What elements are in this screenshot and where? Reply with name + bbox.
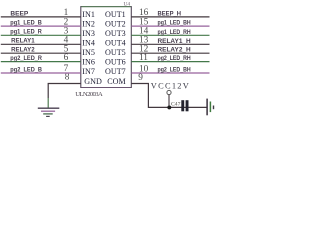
wire pg1_LED_B (pin 2) — [1, 25, 81, 27]
wire pg2_LED_B (pin 7) — [1, 72, 81, 74]
junction node — [167, 105, 171, 109]
wire pg2_LED_BH (pin 10) — [131, 72, 209, 74]
capacitor C47 plates — [181, 100, 188, 111]
svg-text:RELAY2: RELAY2 — [11, 47, 35, 54]
wire pg1_LED_R (pin 3) — [1, 34, 81, 36]
wire RELAY1 (pin 4) — [1, 43, 81, 45]
svg-text:OUT3: OUT3 — [105, 29, 126, 38]
svg-text:pg1_LED_R: pg1_LED_R — [10, 29, 42, 36]
wire BEEP (pin 1) — [1, 16, 81, 18]
svg-text:OUT1: OUT1 — [105, 10, 126, 19]
svg-text:GND: GND — [84, 77, 102, 86]
svg-text:C47: C47 — [171, 101, 181, 107]
svg-text:RELAY1_H: RELAY1_H — [158, 39, 191, 45]
wire pg2_LED_R (pin 6) — [1, 61, 81, 63]
svg-text:IN2: IN2 — [82, 20, 95, 29]
pin names right column — [105, 10, 126, 86]
ground symbol (earth) — [38, 108, 60, 116]
svg-text:BEEP_H: BEEP_H — [158, 11, 182, 17]
wire BEEP_H (pin 16) — [131, 16, 209, 18]
svg-text:IN6: IN6 — [82, 57, 95, 66]
IC U4 ULN2003A body — [81, 6, 132, 88]
wire pg1_LED_BH (pin 15) — [131, 25, 209, 27]
wire RELAY2 (pin 5) — [1, 52, 81, 54]
svg-text:RELAY2_H: RELAY2_H — [158, 48, 191, 54]
svg-text:IN1: IN1 — [82, 10, 95, 19]
wire COM pin 9 down to VCC rail — [131, 84, 207, 108]
svg-text:pg2_LED_BH: pg2_LED_BH — [158, 68, 191, 74]
svg-text:IN5: IN5 — [82, 48, 95, 57]
wire RELAY1_H (pin 13) — [131, 43, 209, 45]
svg-text:pg2_LED_RH: pg2_LED_RH — [158, 56, 191, 62]
left pin numbers 1-8 — [64, 8, 70, 82]
svg-text:OUT2: OUT2 — [105, 20, 126, 29]
svg-text:pg1_LED_B: pg1_LED_B — [10, 20, 42, 27]
svg-text:OUT7: OUT7 — [105, 67, 126, 76]
svg-text:IN7: IN7 — [82, 67, 95, 76]
svg-text:pg2_LED_R: pg2_LED_R — [10, 55, 42, 62]
wire RELAY2_H (pin 12) — [131, 52, 209, 54]
svg-text:OUT5: OUT5 — [105, 48, 126, 57]
svg-text:pg1_LED_BH: pg1_LED_BH — [158, 21, 191, 27]
svg-text:COM: COM — [107, 77, 125, 86]
right pin numbers 16-9 — [138, 8, 148, 83]
wire pg1_LED_RH (pin 14) — [131, 34, 209, 36]
wire GND pin 8 to ground — [48, 84, 81, 99]
svg-text:pg2_LED_B: pg2_LED_B — [10, 66, 42, 73]
power ground (bar style) — [207, 99, 213, 116]
svg-text:ULN2003A: ULN2003A — [75, 91, 103, 98]
svg-text:8: 8 — [65, 72, 70, 82]
svg-text:pg1_LED_RH: pg1_LED_RH — [158, 30, 191, 36]
svg-text:9: 9 — [138, 73, 143, 83]
svg-text:OUT4: OUT4 — [105, 39, 126, 48]
svg-text:IN3: IN3 — [82, 29, 95, 38]
svg-text:OUT6: OUT6 — [105, 57, 126, 66]
wire (lower stem to ground) — [47, 98, 49, 108]
svg-text:RELAY1: RELAY1 — [11, 38, 35, 45]
power port VCC12V — [151, 81, 189, 107]
pin names left column — [82, 10, 102, 86]
svg-text:IN4: IN4 — [82, 39, 95, 48]
svg-text:BEEP: BEEP — [10, 10, 28, 17]
svg-text:U4: U4 — [124, 1, 131, 7]
svg-text:VCC12V: VCC12V — [151, 81, 189, 90]
wire pg2_LED_RH (pin 11) — [131, 61, 209, 63]
